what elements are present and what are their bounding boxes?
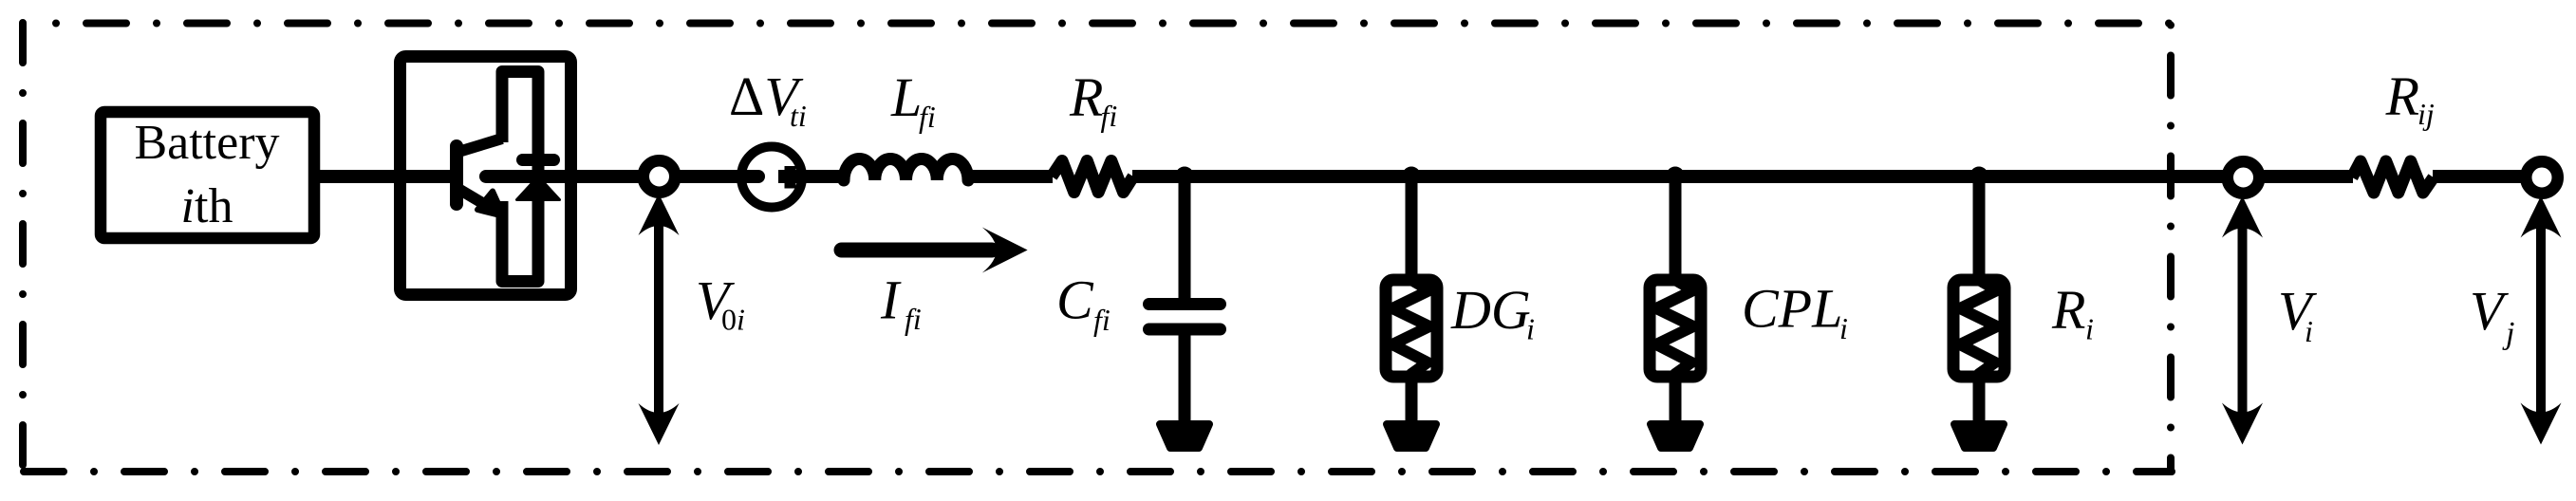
svg-text:ti: ti (790, 99, 807, 133)
svg-text:i: i (2305, 314, 2313, 348)
svg-text:I: I (880, 269, 902, 331)
svg-text:Battery: Battery (134, 116, 279, 170)
svg-text:R: R (2051, 279, 2085, 341)
svg-text:fi: fi (1101, 99, 1118, 133)
svg-text:fi: fi (919, 100, 936, 134)
svg-text:i: i (2085, 312, 2094, 346)
svg-text:i: i (1839, 311, 1848, 345)
svg-text:ij: ij (2417, 97, 2435, 131)
svg-text:R: R (1069, 66, 1103, 128)
svg-text:DG: DG (1450, 279, 1531, 341)
svg-text:CPL: CPL (1742, 278, 1842, 340)
svg-text:i: i (1526, 312, 1535, 346)
svg-text:ith: ith (181, 179, 233, 233)
svg-text:R: R (2385, 65, 2419, 127)
svg-text:fi: fi (905, 302, 922, 336)
svg-text:C: C (1056, 269, 1094, 331)
svg-text:fi: fi (1093, 303, 1111, 337)
svg-text:L: L (890, 66, 922, 128)
svg-text:0i: 0i (721, 303, 745, 337)
